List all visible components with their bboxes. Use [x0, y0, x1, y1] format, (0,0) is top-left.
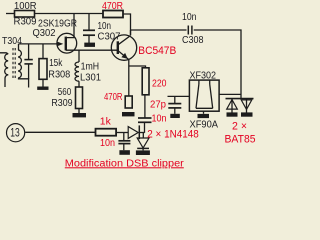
svg-text:13: 13	[10, 126, 20, 140]
svg-text:L301: L301	[80, 73, 101, 84]
svg-text:27p: 27p	[150, 100, 166, 111]
wire emitter branch to 220	[129, 66, 146, 68]
capacitor 10n mid	[138, 118, 152, 122]
wire filter input	[168, 95, 190, 97]
svg-text:10n: 10n	[152, 114, 167, 125]
svg-text:10n: 10n	[98, 21, 112, 32]
capacitor 10n bottom left	[118, 133, 130, 151]
svg-text:R308: R308	[48, 70, 70, 81]
diodes BAT85 rail	[226, 98, 254, 100]
wire drain Q302	[66, 14, 74, 38]
wire gate rail	[19, 43, 58, 45]
wire source to base	[66, 49, 118, 51]
ground 560	[73, 113, 87, 117]
resistor R308 15k	[39, 44, 47, 87]
resistor R309 100R	[15, 11, 35, 18]
resistor 470R mid	[125, 96, 132, 108]
ground diode D2	[136, 150, 150, 155]
svg-text:R309: R309	[51, 98, 73, 109]
diode BAT85 right	[241, 99, 252, 113]
svg-text:1k: 1k	[100, 117, 112, 128]
svg-text:2 ×: 2 ×	[232, 120, 247, 132]
resistor 1k	[96, 129, 117, 136]
svg-text:Modification DSB clipper: Modification DSB clipper	[65, 158, 185, 169]
svg-text:BC547B: BC547B	[138, 45, 176, 57]
wire filter output	[219, 93, 241, 95]
node 13	[7, 124, 25, 142]
capacitor C307	[83, 14, 95, 44]
ground filter	[198, 114, 210, 118]
ground 27p	[170, 114, 180, 118]
svg-text:C308: C308	[182, 35, 204, 46]
wire C308 rail	[131, 29, 187, 31]
svg-text:XF302: XF302	[190, 70, 217, 81]
diode BAT85 left	[227, 99, 238, 113]
capacitor 27p	[168, 96, 181, 113]
ground 10n bottom	[119, 150, 129, 155]
capacitor tank	[24, 44, 32, 79]
wire emitter down	[128, 60, 130, 96]
svg-text:2 × 1N4148: 2 × 1N4148	[147, 129, 199, 141]
svg-text:Q302: Q302	[33, 28, 56, 39]
diode D2 1N4148 shunt	[137, 138, 149, 150]
svg-text:220: 220	[152, 79, 167, 90]
resistor R309 560	[76, 87, 83, 113]
diode D1 1N4148	[128, 125, 144, 139]
svg-text:560: 560	[58, 87, 72, 98]
svg-text:470R: 470R	[102, 1, 123, 12]
svg-text:C307: C307	[98, 32, 121, 43]
svg-text:100R: 100R	[14, 1, 37, 12]
svg-text:BAT85: BAT85	[225, 134, 256, 146]
gate arrow	[57, 42, 63, 47]
svg-text:15k: 15k	[49, 58, 63, 69]
wire 1k to diode	[116, 132, 128, 134]
ground BAT85 right	[241, 112, 253, 116]
svg-text:1mH: 1mH	[81, 61, 100, 72]
wire C308 to right edge down	[194, 30, 241, 99]
ground BAT85 left	[227, 112, 238, 116]
resistor 220	[142, 68, 149, 95]
svg-text:10n: 10n	[100, 138, 115, 149]
capacitor C308	[188, 26, 192, 35]
wire collector up	[130, 30, 132, 35]
ground 470R mid	[122, 112, 135, 116]
wire node13 to 1k	[25, 131, 95, 133]
wire input top left	[6, 13, 15, 15]
transformer T304	[0, 44, 29, 88]
wire top rail	[35, 13, 104, 15]
svg-text:T304: T304	[2, 36, 22, 47]
svg-text:R309: R309	[14, 16, 37, 27]
ground C307	[84, 43, 95, 47]
inductor L301 1mH	[75, 50, 79, 87]
emitter arrow	[121, 53, 127, 59]
filter XF302 box	[189, 80, 219, 114]
svg-text:470R: 470R	[104, 92, 123, 103]
ground T304/R308	[37, 87, 48, 90]
resistor 470R top	[103, 11, 123, 18]
svg-text:10n: 10n	[182, 12, 197, 23]
wire 10n to clipper node	[144, 122, 146, 133]
wire 220 to 10n	[144, 95, 146, 118]
transistor Q302 2SK19GR	[57, 33, 77, 53]
wire 470R to collector corner	[123, 14, 131, 35]
transistor BC547B	[111, 35, 136, 60]
